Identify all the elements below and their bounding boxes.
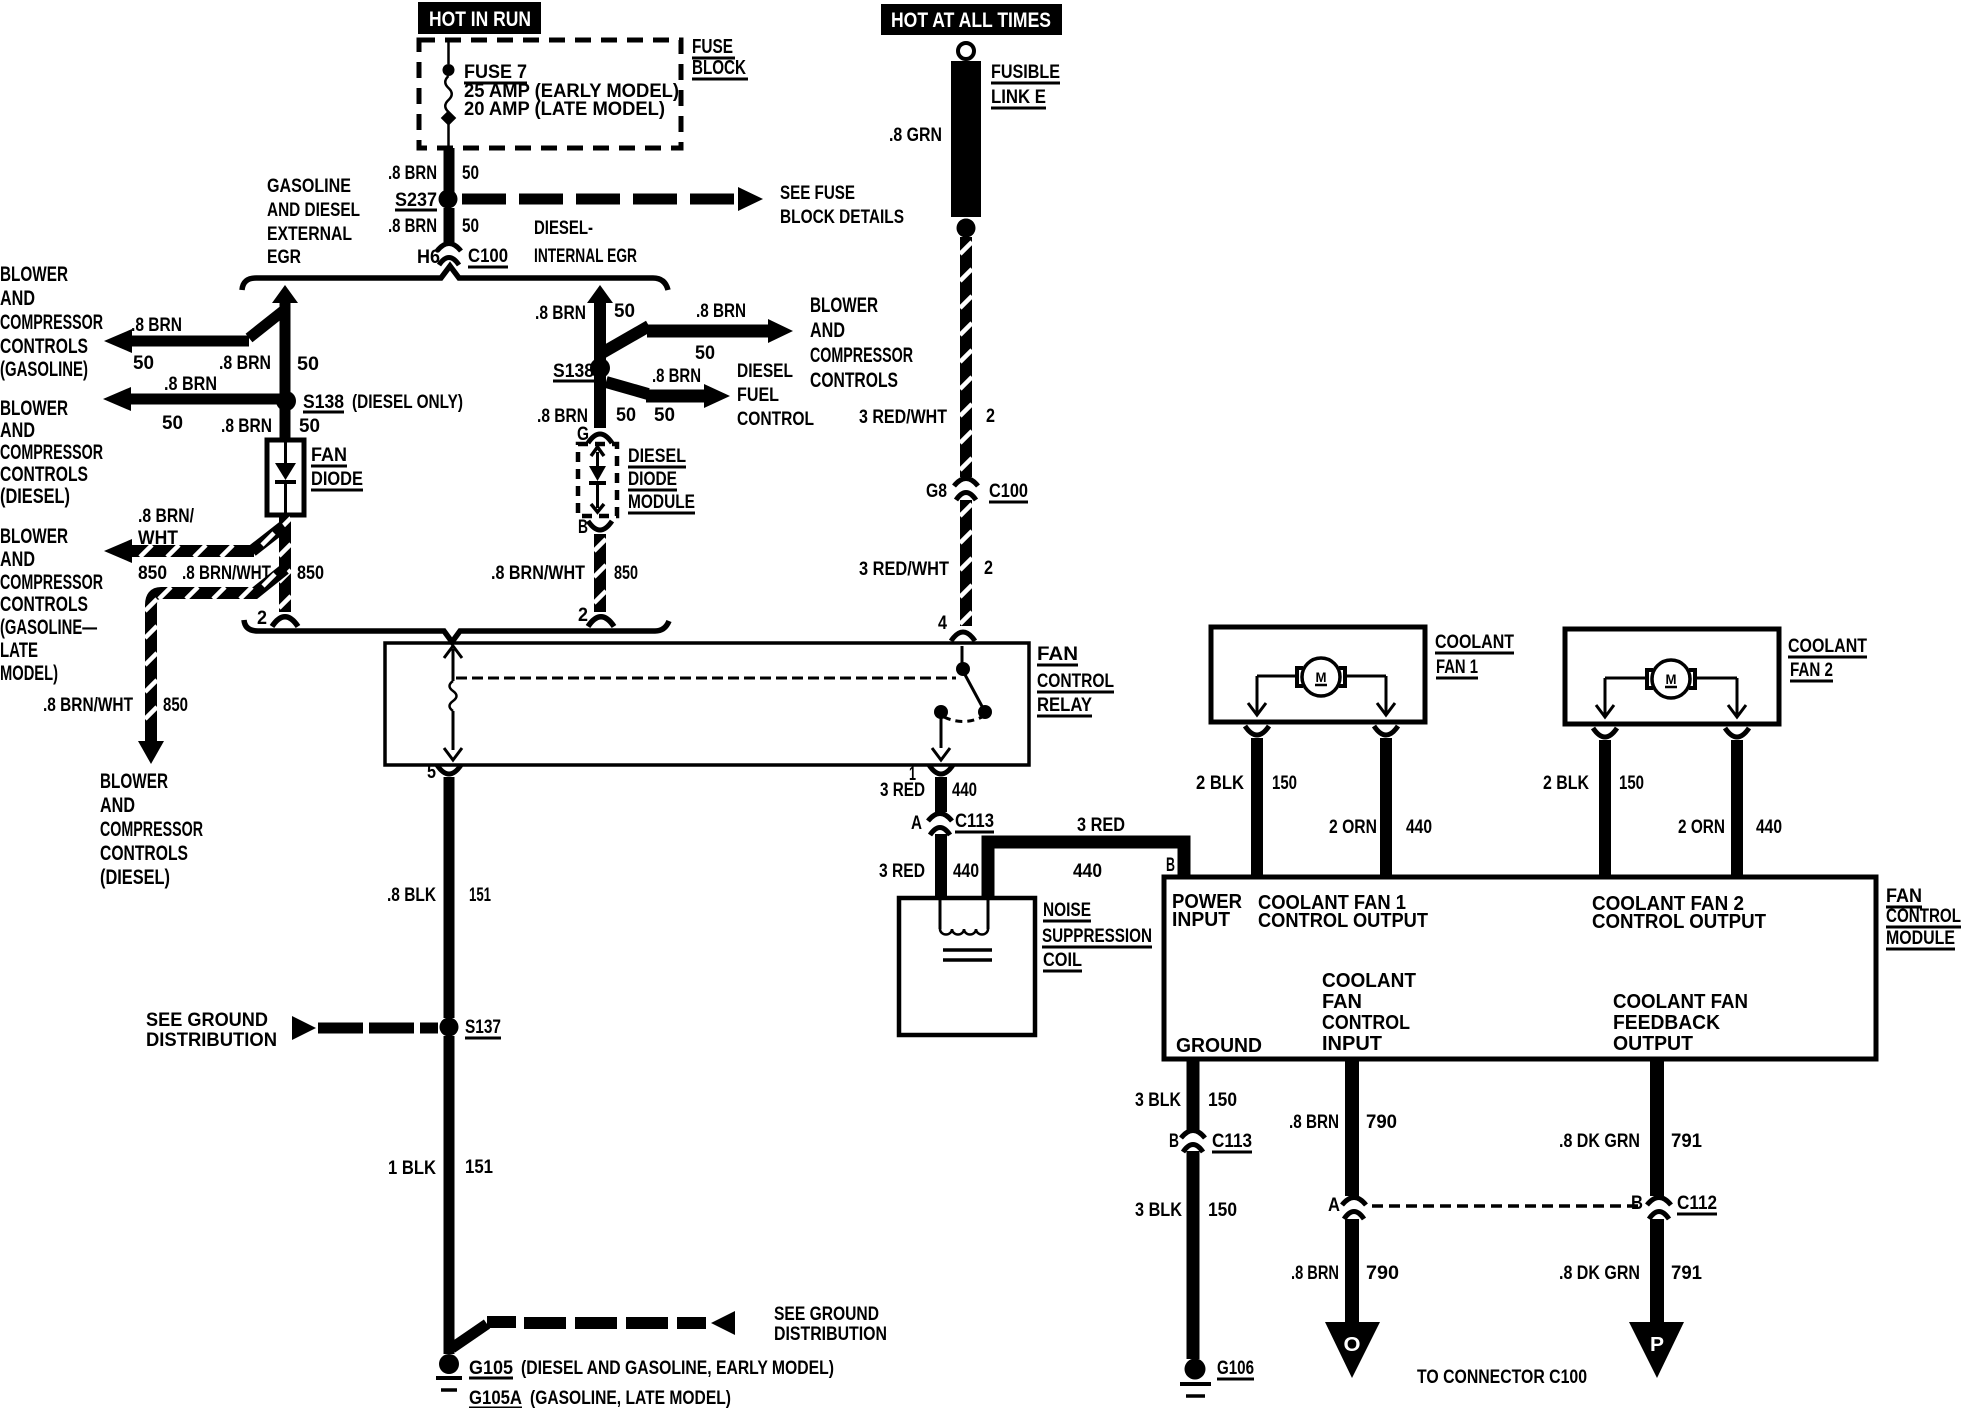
fan control relay box [385,643,1029,765]
connector 2 left at C100 [272,617,298,627]
dashed link C112 A-B [1372,1204,1642,1208]
label 2 right [578,605,588,626]
connector relay pin 4 [951,632,975,641]
svg-text:151: 151 [465,1157,493,1178]
connector relay pin 1 [929,765,953,774]
svg-text:COOLANT: COOLANT [1435,632,1514,653]
label FUSIBLE LINK E [991,62,1060,108]
dashed arrow see ground distribution bottom [487,1311,735,1335]
arrow S138 to blower controls diesel [103,387,286,411]
svg-text:790: 790 [1366,1112,1397,1133]
label S138 (DIESEL ONLY) [303,392,463,413]
svg-text:791: 791 [1671,1263,1702,1284]
svg-text:.8 GRN: .8 GRN [889,125,942,146]
up-arrow into C100 left [272,285,298,303]
label 50 [462,163,479,184]
label B [1166,855,1175,876]
svg-text:2 ORN: 2 ORN [1329,817,1377,838]
svg-text:B: B [578,517,588,538]
label DIESEL-INTERNAL EGR [534,218,637,267]
label 3 RED [1077,815,1125,836]
svg-text:BLOWER: BLOWER [810,294,878,317]
label POWER INPUT [1172,891,1243,931]
label B [1631,1193,1643,1214]
coolant fan 2 motor [1565,629,1779,724]
label 790 [1366,1263,1399,1284]
fuse F7 symbol [441,40,457,148]
label 50 [616,405,636,426]
relay switch [932,646,992,760]
wire C112 B to connector P (.8 DK GRN 791) [1650,1219,1664,1324]
svg-text:850: 850 [163,695,188,716]
fusible link E bar [951,61,981,217]
svg-text:3 RED: 3 RED [880,780,925,801]
svg-text:C100: C100 [989,481,1028,502]
svg-text:(GASOLINE): (GASOLINE) [0,358,88,381]
svg-text:440: 440 [1406,817,1432,838]
label S138 [553,361,594,382]
label 2 left [257,608,267,629]
svg-text:SEE GROUND: SEE GROUND [146,1010,268,1031]
label 3 RED/WHT [859,559,949,580]
label COOLANT FAN 2 [1788,636,1867,681]
svg-text:.8 BRN: .8 BRN [535,303,586,324]
svg-text:OUTPUT: OUTPUT [1613,1033,1693,1055]
svg-text:2 BLK: 2 BLK [1196,773,1244,794]
svg-text:DIODE: DIODE [628,469,677,490]
label 3 BLK [1135,1090,1181,1111]
wire module feedback to C112 B (.8 DK GRN 791) [1650,1059,1664,1196]
label .8 BRN [219,353,271,374]
connector O to C100 [1325,1322,1380,1378]
label G105 (DIESEL AND GASOLINE, EARLY MODEL) [469,1358,834,1379]
label G [577,424,589,445]
svg-text:COMPRESSOR: COMPRESSOR [810,344,913,367]
svg-text:COMPRESSOR: COMPRESSOR [0,571,103,594]
label COOLANT FAN 1 CONTROL OUTPUT [1258,892,1428,932]
connector G diesel diode module [588,434,612,443]
connector fan2 ground pin [1593,728,1617,737]
label 850 [138,563,167,584]
svg-text:CONTROL: CONTROL [1322,1012,1410,1034]
svg-text:440: 440 [952,780,977,801]
label S137 [465,1017,501,1038]
svg-text:.8 BLK: .8 BLK [387,885,436,906]
svg-text:.8 BRN/: .8 BRN/ [138,506,195,527]
svg-text:G106: G106 [1217,1358,1254,1379]
svg-text:AND: AND [0,287,35,310]
svg-text:50: 50 [695,343,715,364]
svg-text:(GASOLINE, LATE MODEL): (GASOLINE, LATE MODEL) [530,1388,731,1408]
svg-text:DIESEL: DIESEL [628,446,686,467]
splice S137 [440,1018,459,1037]
svg-text:S137: S137 [465,1017,501,1038]
coolant fan 1 motor [1211,627,1425,722]
svg-text:DIESEL-: DIESEL- [534,218,593,239]
svg-text:INPUT: INPUT [1172,909,1230,931]
wire fuse to S237 (.8 BRN 50) [444,148,455,196]
svg-text:INPUT: INPUT [1322,1033,1382,1055]
splice S138 diesel only [276,391,296,411]
svg-text:50: 50 [299,416,320,437]
label 791 [1671,1131,1702,1152]
svg-text:50: 50 [133,353,154,374]
up-arrow into C100 right [587,285,613,303]
svg-text:2: 2 [257,608,267,629]
wire fan1 to module ground (2 BLK 150) [1251,738,1263,877]
svg-text:(DIESEL): (DIESEL) [0,485,70,508]
label C113 [1212,1131,1252,1152]
svg-text:SEE FUSE: SEE FUSE [780,183,855,204]
label SEE GROUND DISTRIBUTION bottom [774,1304,887,1345]
svg-text:COOLANT: COOLANT [1788,636,1867,657]
fan control module box [1164,877,1876,1059]
svg-text:50: 50 [462,163,479,184]
svg-text:COIL: COIL [1043,950,1082,971]
svg-text:20 AMP (LATE MODEL): 20 AMP (LATE MODEL) [464,99,665,120]
svg-text:.8 BRN: .8 BRN [1289,1112,1339,1133]
wire diesel diode to C100-2 (.8 BRN/WHT 850 hatched) [594,534,606,612]
svg-text:FAN 2: FAN 2 [1790,660,1833,681]
battery terminal circle [958,43,974,59]
svg-text:.8 BRN: .8 BRN [388,163,437,184]
label 50 [297,354,319,375]
connector P to C100 [1629,1322,1684,1378]
label BLOWER AND COMPRESSOR CONTROLS right [810,294,913,392]
label .8 BRN [535,303,586,324]
label .8 BRN [696,301,746,322]
label B [1169,1131,1179,1152]
svg-text:AND: AND [0,548,35,571]
svg-text:SUPPRESSION: SUPPRESSION [1042,926,1152,947]
wire relay pin1 to C113 (3 RED 440) [935,777,947,812]
branch wire to blower controls diesel (hatched, down arrow) [138,569,285,764]
svg-text:3 RED: 3 RED [879,861,925,882]
svg-text:50: 50 [616,405,636,426]
connector B diesel diode module [588,521,612,530]
label DIESEL FUEL CONTROL [737,361,814,430]
label G8 [926,481,947,502]
svg-text:TO CONNECTOR C100: TO CONNECTOR C100 [1417,1367,1587,1388]
ground G106 [1180,1359,1211,1397]
svg-text:CONTROLS: CONTROLS [0,593,88,616]
svg-text:C112: C112 [1677,1193,1717,1214]
power feed label HOT AT ALL TIMES [881,4,1062,35]
svg-text:DIODE: DIODE [311,469,363,490]
label 2 BLK [1196,773,1244,794]
wire C113 to noise suppression coil (3 RED 440) [935,834,947,898]
label 50 [133,353,154,374]
svg-text:CONTROLS: CONTROLS [810,369,898,392]
svg-text:3 RED: 3 RED [1077,815,1125,836]
label 791 [1671,1263,1702,1284]
fan diode [267,440,304,515]
wire C112 A to connector O (.8 BRN 790) [1345,1219,1359,1324]
svg-text:FAN: FAN [1322,991,1362,1013]
svg-text:C100: C100 [468,246,508,267]
svg-text:2: 2 [986,406,995,427]
svg-text:CONTROLS: CONTROLS [100,842,188,865]
svg-text:3 BLK: 3 BLK [1135,1200,1182,1221]
svg-text:4: 4 [938,613,947,634]
label 150 [1619,773,1644,794]
wire S137 to G105 (1 BLK 151) [449,1036,487,1354]
label 2 [984,558,993,579]
label .8 BRN/WHT [43,695,133,716]
label 440 [1406,817,1432,838]
label .8 BRN [1289,1112,1339,1133]
svg-text:CONTROLS: CONTROLS [0,463,88,486]
svg-text:MODULE: MODULE [628,492,695,513]
svg-text:O: O [1344,1334,1361,1356]
label DIESEL DIODE MODULE [628,446,695,513]
svg-text:.8 BRN: .8 BRN [652,366,701,387]
svg-text:RELAY: RELAY [1037,695,1092,716]
svg-text:440: 440 [1756,817,1782,838]
label 440 [952,780,977,801]
svg-text:GROUND: GROUND [1176,1035,1262,1057]
svg-text:B: B [1631,1193,1643,1214]
svg-text:C113: C113 [955,811,994,832]
label .8 BRN/WHT [182,563,271,584]
svg-text:NOISE: NOISE [1043,900,1091,921]
label 850 [614,563,638,584]
svg-text:.8 BRN/WHT: .8 BRN/WHT [491,563,585,584]
svg-text:.8 BRN/WHT: .8 BRN/WHT [43,695,133,716]
noise suppression coil box [899,898,1035,1035]
svg-text:MODEL): MODEL) [0,662,58,685]
wire C100 to relay pin4 (3 RED/WHT 2 hatched) [960,500,972,626]
label 5 [427,762,436,783]
splice S138 right [590,358,610,378]
svg-text:BLOCK: BLOCK [692,57,746,79]
connector C100 underbrace above relay [244,620,669,642]
label GASOLINE AND DIESEL EXTERNAL EGR [267,176,360,268]
svg-text:HOT IN RUN: HOT IN RUN [429,8,531,31]
diesel diode module dashed box [578,444,617,516]
label .8 DK GRN [1559,1131,1640,1152]
label 1 BLK [388,1158,436,1179]
svg-text:COOLANT: COOLANT [1322,970,1416,992]
label G105A (GASOLINE, LATE MODEL) [469,1388,731,1408]
svg-text:3 RED/WHT: 3 RED/WHT [859,407,947,428]
label C100 [989,481,1028,502]
label .8 BRN [221,416,272,437]
label 440 [1756,817,1782,838]
svg-text:(DIESEL AND GASOLINE, EARLY MO: (DIESEL AND GASOLINE, EARLY MODEL) [521,1358,834,1379]
label BLOWER AND COMPRESSOR CONTROLS (DIESEL) [0,397,103,508]
svg-text:BLOWER: BLOWER [0,397,68,420]
label C100 [468,246,508,267]
label SEE GROUND DISTRIBUTION [146,1010,277,1051]
svg-text:GASOLINE: GASOLINE [267,176,351,197]
svg-text:50: 50 [462,216,479,237]
svg-text:DIESEL: DIESEL [737,361,793,382]
svg-text:.8 BRN: .8 BRN [388,216,437,237]
branch arrow to blower and compressor controls right [602,319,793,353]
svg-text:BLOWER: BLOWER [0,263,68,286]
connector C113 B [1181,1131,1205,1153]
diesel diode symbol [589,447,606,512]
svg-text:HOT AT ALL TIMES: HOT AT ALL TIMES [891,9,1051,32]
svg-text:DISTRIBUTION: DISTRIBUTION [146,1030,277,1051]
label COOLANT FAN FEEDBACK OUTPUT [1613,991,1748,1055]
label 50 [299,416,320,437]
splice S237 [439,190,458,209]
label 2 ORN [1329,817,1377,838]
svg-text:FUEL: FUEL [737,385,779,406]
label 4 [938,613,947,634]
svg-text:CONTROLS: CONTROLS [0,335,88,358]
connector C113 A [928,814,952,836]
power feed label HOT IN RUN [418,2,541,34]
label A [1328,1195,1340,1216]
label 150 [1272,773,1297,794]
svg-text:2 ORN: 2 ORN [1678,817,1725,838]
svg-text:150: 150 [1272,773,1297,794]
svg-text:CONTROL OUTPUT: CONTROL OUTPUT [1258,910,1428,932]
label 50 [695,343,715,364]
svg-text:150: 150 [1208,1090,1237,1111]
label 50 [614,301,635,322]
label 50 [162,413,183,434]
svg-text:WHT: WHT [138,528,178,549]
svg-text:G105: G105 [469,1358,513,1379]
connector H6 C100 [437,244,461,266]
svg-text:FUSE: FUSE [692,36,733,58]
svg-text:G105A: G105A [469,1388,522,1408]
label 440 [1073,861,1102,882]
label 790 [1366,1112,1397,1133]
svg-text:C113: C113 [1212,1131,1252,1152]
svg-text:FUSE 7: FUSE 7 [464,62,527,83]
wire relay pin5 to S137 (.8 BLK 151) [444,777,455,1018]
svg-text:BLOCK DETAILS: BLOCK DETAILS [780,207,904,228]
label .8 BRN/ WHT [138,506,195,549]
svg-text:M: M [1316,669,1327,685]
svg-text:.8 BRN: .8 BRN [219,353,271,374]
svg-text:BLOWER: BLOWER [0,525,68,548]
wire fan1 control to module (2 ORN 440) [1380,738,1392,877]
connector 2 right at C100 [588,617,614,627]
label 3 BLK [1135,1200,1182,1221]
wire fan diode to C100-2 (.8 BRN/WHT 850 hatched) [279,515,291,612]
label .8 BRN [1291,1263,1339,1284]
svg-text:50: 50 [297,354,319,375]
svg-text:50: 50 [654,405,675,426]
label 3 RED [879,861,925,882]
svg-text:2: 2 [984,558,993,579]
fuse block dashed box [419,40,681,148]
dashed arrow see ground distribution [292,1016,438,1040]
svg-text:FEEDBACK: FEEDBACK [1613,1012,1721,1034]
label FAN CONTROL MODULE [1886,886,1961,949]
wire fan2 to module ground (2 BLK 150) [1599,740,1611,879]
wire C100 to S138 left (.8 BRN 50) [280,300,291,440]
label 150 [1208,1090,1237,1111]
wire module input to C112 A (.8 BRN 790) [1345,1059,1359,1196]
connector C112 A [1342,1198,1366,1220]
connector relay pin 5 [437,765,461,774]
svg-text:A: A [911,813,922,834]
svg-text:(GASOLINE—: (GASOLINE— [0,616,97,639]
svg-text:(DIESEL ONLY): (DIESEL ONLY) [352,392,463,413]
svg-text:P: P [1650,1334,1664,1356]
svg-text:850: 850 [297,563,324,584]
svg-text:440: 440 [953,861,979,882]
wire fan2 control to module (2 ORN 440) [1731,740,1743,879]
label FAN DIODE [311,445,363,490]
label 151 [469,885,491,906]
svg-text:BLOWER: BLOWER [100,770,168,793]
svg-text:50: 50 [614,301,635,322]
label COOLANT FAN CONTROL INPUT [1322,970,1416,1055]
splice below fusible link [957,219,976,238]
svg-text:CONTROL: CONTROL [737,409,814,430]
svg-text:850: 850 [138,563,167,584]
branch arrow to blower/compressor controls gasoline [104,311,283,353]
connector C100 overbrace [242,266,668,290]
label G106 [1217,1358,1254,1379]
svg-text:AND: AND [100,794,135,817]
noise suppression coil symbol [940,900,992,960]
label 2 ORN [1678,817,1725,838]
label A [911,813,922,834]
svg-text:.8 BRN: .8 BRN [1291,1263,1339,1284]
label 50 [654,405,675,426]
label BLOWER AND COMPRESSOR CONTROLS (GASOLINE-LATE MODEL) [0,525,103,685]
label COOLANT FAN 2 CONTROL OUTPUT [1592,893,1766,933]
label 850 [163,695,188,716]
svg-text:.8 DK GRN: .8 DK GRN [1559,1131,1640,1152]
label 2 BLK [1543,773,1589,794]
svg-text:CONTROL: CONTROL [1037,671,1114,692]
label GROUND [1176,1035,1262,1057]
connector fan1 ground pin [1245,726,1269,735]
label NOISE SUPPRESSION COIL [1042,900,1152,971]
wire C113 to G106 (3 BLK 150) [1187,1151,1200,1359]
svg-text:150: 150 [1208,1200,1237,1221]
label 850 [297,563,324,584]
label 50 [0,0,1,1]
label 3 RED/WHT [859,407,947,428]
svg-text:.8 BRN: .8 BRN [221,416,272,437]
svg-text:.8 BRN: .8 BRN [131,315,182,336]
svg-text:.8 DK GRN: .8 DK GRN [1559,1263,1640,1284]
svg-text:FAN: FAN [311,445,347,466]
svg-text:M: M [1666,671,1677,687]
svg-text:COMPRESSOR: COMPRESSOR [0,311,103,334]
wire module ground to C113 (3 BLK 150) [1187,1059,1200,1130]
label .8 BRN [164,374,217,395]
svg-text:AND: AND [810,319,845,342]
svg-text:CONTROL: CONTROL [1886,906,1961,927]
svg-text:(DIESEL): (DIESEL) [100,866,170,889]
label H6 [417,247,440,268]
relay coil [444,646,462,760]
label 151 [465,1157,493,1178]
svg-text:G8: G8 [926,481,947,502]
connector G8 C100 [954,479,978,501]
label BLOWER AND COMPRESSOR CONTROLS (GASOLINE) [0,263,103,381]
label .8 DK GRN [1559,1263,1640,1284]
svg-text:50: 50 [162,413,183,434]
svg-text:DISTRIBUTION: DISTRIBUTION [774,1324,887,1345]
svg-text:5: 5 [427,762,436,783]
svg-text:S138: S138 [553,361,594,382]
svg-text:1 BLK: 1 BLK [388,1158,436,1179]
svg-text:SEE GROUND: SEE GROUND [774,1304,879,1325]
